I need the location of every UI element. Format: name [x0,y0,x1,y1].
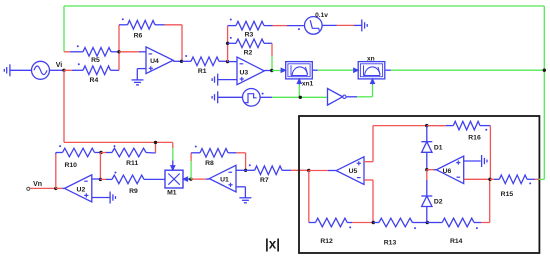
node (U1 output) [189,177,192,180]
wire (U2 inverting input) [92,178,101,180]
node (R2 junction) [226,42,229,45]
node (U2 inverting input) [99,178,102,181]
resistor R13 [373,218,427,247]
resistor R10 [56,145,101,188]
ground (U2 non-inverting input) [92,192,116,204]
wire (M1 X input arrow) [183,177,191,181]
node (U3 output) [270,69,273,72]
diode D1 [421,126,442,170]
ground (U1 non-inverting input) [236,187,251,203]
wire (xn1 bottom probe) [297,79,301,97]
node (probe line) [299,96,302,99]
voltage source 0.1v [298,12,328,34]
wire (junction riser to U2 inverting input) [99,153,101,180]
meter block xn1 [286,62,314,88]
wire (inverter output to xn probe) [346,79,375,97]
node Vi [56,62,66,72]
resistor R15 [490,175,544,198]
node (U4 output) [180,60,183,63]
op-amp U6 [436,156,463,184]
wire (branch down to M1 Y input) [171,148,175,170]
svg-text:U1: U1 [220,177,229,184]
wire (U3 inverting input) [228,61,237,63]
svg-text:xn: xn [367,56,375,63]
svg-text:|x|: |x| [265,237,280,252]
svg-text:U4: U4 [150,58,159,65]
subcircuit box |x| [299,116,539,253]
node (rail / R11 junction) [154,141,157,144]
wire (green feedback net top) [64,6,544,179]
op-amp U2 [65,175,92,202]
node (R13/R14/D2 junction) [426,221,429,224]
resistor R14 [427,218,489,245]
svg-text:R8: R8 [205,160,214,167]
wire (U6 inverting input) [464,178,490,180]
wire (square source output) [260,96,327,98]
op-amp U5 [336,157,364,185]
ground (U3 non-inverting input) [212,74,237,86]
svg-text:R16: R16 [468,135,481,142]
diode D2 [421,170,442,223]
node (U2 output) [54,187,57,190]
svg-text:R7: R7 [260,177,269,184]
label |x| [265,237,280,252]
svg-text:R9: R9 [129,188,138,195]
wire (R14 riser) [489,179,491,222]
svg-text:U2: U2 [77,186,86,193]
ground (U4 non-inverting input) [132,69,147,85]
ground (0.1v source) [322,19,367,31]
svg-text:R4: R4 [90,77,99,84]
ground (square-wave source) [212,91,242,103]
svg-text:R5: R5 [91,57,100,64]
wire (U3 output) [264,70,272,72]
svg-text:R13: R13 [384,240,397,247]
svg-text:Vi: Vi [56,62,63,69]
resistor R7 [246,164,309,184]
svg-text:xn1: xn1 [302,80,314,87]
wire (junction to U6) [427,169,437,171]
wire (R2/R3 input riser) [227,26,229,62]
voltage source (square wave) [243,89,264,107]
op-amp U4 [146,47,173,74]
resistor R5 [64,45,119,64]
wire (U4 output) [173,60,181,62]
wire (U1 inverting input) [236,169,246,171]
meter block xn [358,56,385,79]
node (D1 top) [425,124,428,127]
wire (U1 output stub) [191,178,209,180]
resistor R4 [64,63,119,84]
svg-text:0.1v: 0.1v [315,12,328,19]
svg-text:R12: R12 [320,238,333,245]
wire (U2 output stub) [56,187,65,189]
resistor R16 [427,121,490,179]
wire (U1 output to R8 riser) [190,153,192,179]
multiplier M1 [165,170,183,196]
svg-text:M1: M1 [167,190,177,197]
ground (input source) [4,64,31,76]
wire (top rail) [373,125,446,127]
wire (lower rail to R11 right / M1 branch) [64,142,173,153]
node (R5 junction) [117,50,120,53]
wire (R4/R5/R6 junction riser) [118,25,120,71]
svg-text:R3: R3 [245,31,254,38]
resistor R9 [100,172,165,196]
svg-text:R6: R6 [134,33,143,40]
svg-text:R10: R10 [64,162,77,169]
node (U5 output) [307,169,310,172]
svg-text:D1: D1 [434,144,443,151]
svg-text:U3: U3 [239,70,248,77]
node (feedback net) [543,69,546,72]
resistor R6 [119,18,182,61]
node (R15 input) [488,178,491,181]
svg-text:U5: U5 [349,168,358,175]
resistor R1 [182,55,228,75]
node (D1/D2/U6 junction) [425,168,428,171]
wire (U5 non-inverting riser) [364,126,373,162]
node (U1 inverting input) [244,169,247,172]
inverter (unity buffer) [328,89,347,106]
wire (Vn lead) [30,187,56,189]
svg-text:R1: R1 [198,68,207,75]
wire (junction to U4 inverting input) [119,51,146,53]
wire (Vi node down to lower rail) [63,70,65,142]
wire (R2 to U3 output) [271,43,273,70]
svg-text:D2: D2 [434,199,443,206]
resistor R8 [191,146,246,171]
wire (U5 output stub) [309,170,336,172]
node (R12/R13 junction) [372,221,375,224]
ground (U6 non-inverting input) [464,155,487,167]
svg-text:Vn: Vn [33,181,42,188]
voltage source Vi (sine) [32,61,65,79]
svg-text:R2: R2 [244,49,253,56]
resistor R2 [228,37,272,57]
svg-text:U6: U6 [443,168,452,175]
resistor R3 [228,19,305,39]
resistor R12 [309,171,374,245]
wire (U5 inverting riser) [364,180,373,223]
wire (xn output) [386,69,545,71]
op-amp U3 [237,57,264,85]
node (R10/R11 junction) [99,151,102,154]
wire (xn1 to xn) [312,68,358,72]
svg-text:R11: R11 [126,160,138,167]
node (U3 inverting input) [226,60,229,63]
terminal Vn [27,181,42,191]
resistor R11 [101,145,156,167]
op-amp U1 [209,165,236,192]
svg-text:R14: R14 [450,238,463,245]
svg-text:R15: R15 [501,191,514,198]
wire (U3 output to meter xn1) [272,68,286,72]
